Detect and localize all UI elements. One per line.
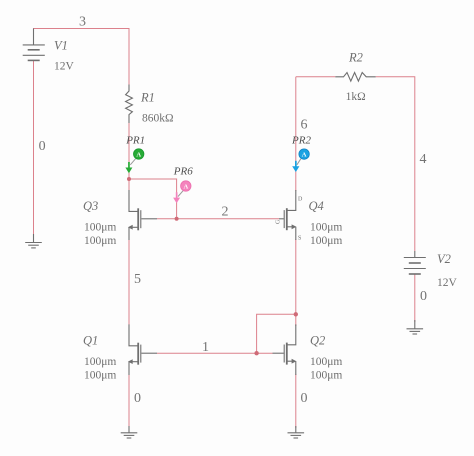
svg-text:G: G — [275, 219, 281, 224]
svg-text:R2: R2 — [348, 51, 363, 65]
svg-text:V2: V2 — [437, 252, 451, 266]
svg-text:100μm: 100μm — [310, 370, 342, 382]
svg-text:100μm: 100μm — [84, 235, 116, 247]
svg-text:Q2: Q2 — [310, 334, 325, 348]
svg-text:860kΩ: 860kΩ — [142, 113, 174, 125]
svg-text:A: A — [136, 151, 141, 158]
svg-text:100μm: 100μm — [84, 370, 116, 382]
svg-text:Q4: Q4 — [309, 199, 324, 213]
svg-text:1kΩ: 1kΩ — [346, 91, 366, 103]
svg-text:PR1: PR1 — [125, 135, 145, 147]
svg-text:100μm: 100μm — [84, 356, 116, 368]
svg-text:R1: R1 — [140, 90, 155, 104]
svg-text:100μm: 100μm — [310, 356, 342, 368]
svg-text:A: A — [302, 152, 307, 159]
svg-text:12V: 12V — [437, 277, 458, 289]
svg-text:1: 1 — [202, 340, 209, 355]
svg-text:4: 4 — [420, 152, 427, 167]
svg-text:Q3: Q3 — [83, 199, 98, 213]
svg-text:A: A — [183, 183, 188, 190]
svg-text:12V: 12V — [54, 61, 75, 73]
svg-text:100μm: 100μm — [310, 235, 342, 247]
svg-text:PR6: PR6 — [173, 166, 193, 178]
svg-text:2: 2 — [222, 205, 229, 220]
svg-text:0: 0 — [134, 391, 141, 406]
svg-text:3: 3 — [79, 15, 86, 30]
svg-text:Q1: Q1 — [83, 334, 98, 348]
svg-text:6: 6 — [301, 118, 308, 133]
svg-text:D: D — [298, 197, 303, 203]
svg-text:S: S — [298, 236, 301, 242]
svg-text:PR2: PR2 — [291, 135, 311, 147]
svg-text:0: 0 — [301, 391, 308, 406]
svg-text:100μm: 100μm — [310, 221, 342, 233]
svg-text:V1: V1 — [54, 39, 68, 53]
svg-text:5: 5 — [134, 272, 141, 287]
svg-text:100μm: 100μm — [84, 221, 116, 233]
svg-text:0: 0 — [39, 139, 46, 154]
svg-text:0: 0 — [420, 289, 427, 304]
